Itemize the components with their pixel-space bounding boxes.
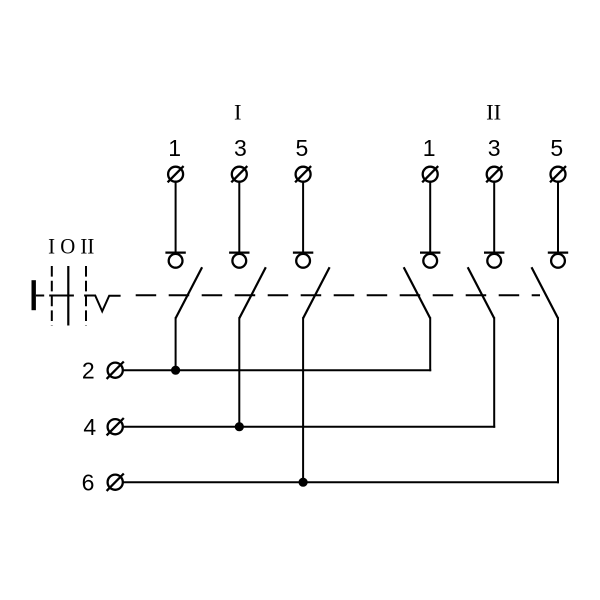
contact seat 1-II (bar) bbox=[420, 252, 440, 254]
position line I (dashed) bbox=[51, 266, 53, 326]
contact seat 1-I (bar) bbox=[165, 252, 185, 254]
blade 5-I (moving contact) bbox=[303, 267, 330, 318]
wire (blade 3-I down to net 4) bbox=[238, 317, 240, 426]
svg-text:3: 3 bbox=[488, 135, 501, 161]
terminal 2 bbox=[107, 362, 124, 379]
contact 1-II (fixed circle) bbox=[423, 254, 437, 268]
svg-text:4: 4 bbox=[83, 414, 96, 440]
svg-text:6: 6 bbox=[82, 469, 95, 495]
svg-text:5: 5 bbox=[550, 135, 563, 161]
wire (terminal 3-I to contact) bbox=[238, 182, 240, 253]
svg-text:I O II: I O II bbox=[48, 234, 94, 259]
wire (terminal 3-II to contact) bbox=[493, 182, 495, 253]
svg-text:5: 5 bbox=[296, 135, 309, 161]
wire (blade 1-II down to net 2) bbox=[429, 317, 431, 371]
junction dot (net 6 / blade 5-I) bbox=[299, 478, 308, 487]
mechanical link (dashed shaft line) bbox=[136, 294, 540, 296]
blade 3-II (moving contact) bbox=[468, 267, 495, 318]
terminal 3 (group II) bbox=[486, 166, 502, 182]
contact seat 3-I (bar) bbox=[229, 252, 249, 254]
junction dot (net 4 / blade 3-I) bbox=[235, 422, 244, 431]
wire (terminal 5-I to contact) bbox=[302, 182, 304, 253]
terminal 5 (group II) bbox=[550, 166, 566, 182]
terminal 5 (group I) bbox=[295, 166, 311, 182]
contact seat 3-II (bar) bbox=[484, 252, 504, 254]
handle (actuator bar) bbox=[32, 280, 36, 310]
position line II (dashed) bbox=[85, 266, 87, 326]
detent (V notch) bbox=[84, 296, 121, 312]
blade 1-I (moving contact) bbox=[176, 267, 203, 318]
contact seat 5-II (bar) bbox=[548, 252, 568, 254]
contact 1-I (fixed circle) bbox=[169, 254, 183, 268]
contact 3-I (fixed circle) bbox=[232, 254, 246, 268]
terminal 3 (group I) bbox=[231, 166, 247, 182]
svg-text:2: 2 bbox=[82, 357, 95, 383]
terminal 1 (group I) bbox=[168, 166, 184, 182]
contact 5-I (fixed circle) bbox=[296, 254, 310, 268]
wire (blade 1-I down to net 2) bbox=[175, 317, 177, 370]
contact 3-II (fixed circle) bbox=[487, 254, 501, 268]
contact 5-II (fixed circle) bbox=[551, 254, 565, 268]
contact seat 5-I (bar) bbox=[293, 252, 313, 254]
blade 5-II (moving contact) bbox=[532, 267, 559, 318]
wire (terminal 5-II to contact) bbox=[557, 182, 559, 253]
svg-text:1: 1 bbox=[168, 135, 181, 161]
svg-text:I: I bbox=[234, 100, 242, 125]
wire (terminal 1-I to contact) bbox=[175, 182, 177, 253]
terminal 1 (group II) bbox=[422, 166, 438, 182]
terminal 4 bbox=[107, 418, 124, 435]
svg-text:II: II bbox=[486, 100, 501, 125]
wire (mechanism cross bar) bbox=[49, 295, 74, 297]
wire (blade 3-II down to net 4) bbox=[493, 317, 495, 427]
wire (terminal 1-II to contact) bbox=[429, 182, 431, 253]
svg-text:3: 3 bbox=[234, 135, 247, 161]
junction dot (net 2 / blade 1-I) bbox=[171, 366, 180, 375]
svg-text:1: 1 bbox=[423, 135, 436, 161]
net 6 (wire) bbox=[123, 481, 559, 483]
blade 1-II (moving contact) bbox=[404, 267, 431, 318]
position line O (solid, current position) bbox=[67, 266, 69, 326]
blade 3-I (moving contact) bbox=[239, 267, 265, 318]
net 2 (wire) bbox=[123, 369, 431, 371]
net 4 (wire) bbox=[123, 426, 495, 428]
wire (blade 5-II down to net 6) bbox=[557, 317, 559, 483]
wire (handle stub) bbox=[36, 295, 44, 297]
terminal 6 bbox=[107, 474, 124, 491]
wire (blade 5-I down to net 6) bbox=[302, 317, 304, 482]
